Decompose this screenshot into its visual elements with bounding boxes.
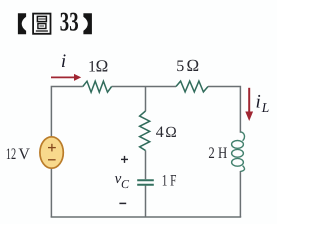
wire top right segment (208, 87, 240, 133)
resistor R2 value label 5 ohm (176, 56, 199, 75)
capacitor voltage minus sign (119, 202, 126, 204)
resistor R3 value label 4 ohm (156, 124, 177, 141)
svg-text:V: V (18, 146, 30, 163)
resistor R3 4 ohm vertical zigzag (140, 111, 150, 151)
capacitor C1 plates (137, 180, 154, 185)
svg-text:4: 4 (156, 124, 164, 141)
svg-text:12: 12 (6, 146, 16, 163)
wire right lower segment (239, 171, 241, 217)
voltage source plus sign (48, 144, 56, 152)
wire top left segment (51, 87, 82, 137)
capacitor voltage label vC (115, 171, 130, 191)
inductor current arrow iL (245, 88, 253, 121)
voltage source value label 12 V (6, 146, 31, 163)
wire top middle segment (112, 86, 176, 88)
svg-text:C: C (121, 177, 130, 191)
wire middle branch upper (145, 87, 147, 112)
svg-text:Ω: Ω (186, 56, 199, 75)
title right bracket 】 (83, 13, 92, 34)
wire bottom segment (51, 216, 242, 218)
svg-text:Ω: Ω (165, 124, 177, 141)
svg-text:Ω: Ω (96, 56, 109, 75)
resistor R1 value label 1 ohm (88, 56, 108, 75)
inductor current label iL (256, 92, 270, 116)
resistor R1 1 ohm zigzag (83, 81, 112, 92)
svg-text:2 H: 2 H (208, 145, 227, 162)
svg-text:i: i (256, 92, 261, 113)
voltage source minus sign (48, 159, 56, 161)
inductor L1 coil (232, 132, 245, 172)
svg-text:33: 33 (60, 7, 79, 37)
title glyph 圖 (33, 14, 50, 34)
svg-text:L: L (261, 100, 270, 115)
wire middle branch lower (145, 186, 147, 217)
voltage source VS 12V (40, 137, 63, 168)
title left bracket 【 (18, 13, 26, 34)
wire left lower segment (50, 168, 52, 217)
wire middle branch between resistor and capacitor (145, 151, 147, 180)
svg-text:5: 5 (176, 58, 184, 75)
svg-text:i: i (61, 51, 66, 72)
current arrow i (51, 74, 81, 81)
svg-text:1 F: 1 F (162, 172, 177, 189)
capacitor voltage plus sign (121, 156, 128, 163)
resistor R2 5 ohm zigzag (176, 81, 208, 92)
